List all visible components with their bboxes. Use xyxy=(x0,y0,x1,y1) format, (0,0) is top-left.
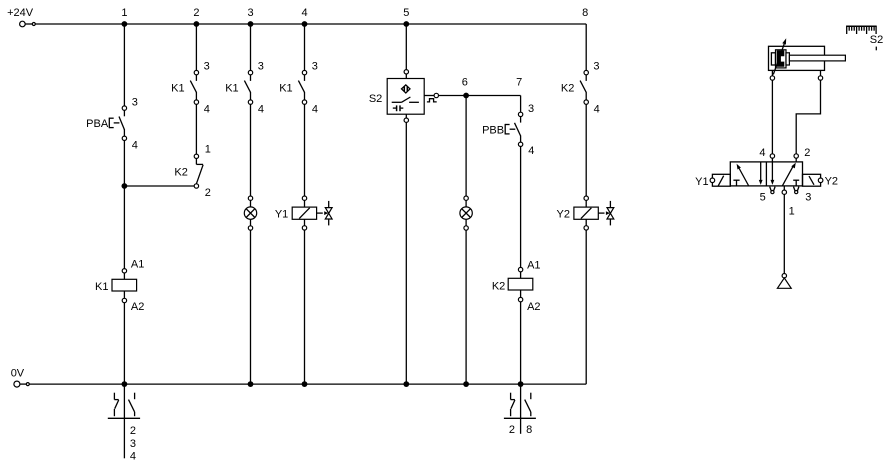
valve body divider xyxy=(765,162,767,186)
wire column 7 middle xyxy=(520,147,522,268)
svg-text:2: 2 xyxy=(130,425,136,437)
wire column 7 lower xyxy=(520,302,522,384)
step symbol at sensor output xyxy=(427,99,437,102)
wire column 8 upper xyxy=(585,24,587,70)
valve port 1 terminal xyxy=(782,186,795,218)
svg-text:4: 4 xyxy=(312,103,318,115)
node rail column 1 xyxy=(122,381,128,387)
valve left position: flow arrow 1-4 xyxy=(737,164,749,186)
wire column 1 upper xyxy=(123,24,125,106)
svg-text:3: 3 xyxy=(130,438,136,450)
valve port 5 exhaust xyxy=(760,187,775,204)
svg-text:A1: A1 xyxy=(527,260,540,272)
svg-text:4: 4 xyxy=(204,103,210,115)
relay coil K2 (A1-A2) xyxy=(492,260,541,313)
svg-text:8: 8 xyxy=(582,7,588,19)
contact K1 NO (column 3, terminals 3-4) xyxy=(225,61,264,116)
cylinder port A terminal xyxy=(770,76,774,80)
valve solenoid Y1 xyxy=(695,174,730,188)
svg-text:Y1: Y1 xyxy=(695,176,708,188)
node rail column 4 xyxy=(302,381,308,387)
valve port 4 terminal xyxy=(759,147,774,162)
svg-text:3: 3 xyxy=(528,103,534,115)
wire column 8 middle xyxy=(585,104,587,196)
wire column 7 upper xyxy=(520,96,522,113)
wire column 6 lower xyxy=(465,230,467,384)
valve port 3 exhaust xyxy=(794,187,812,204)
svg-text:4: 4 xyxy=(301,7,307,19)
svg-text:3: 3 xyxy=(204,61,210,73)
node rail column 5 xyxy=(403,381,409,387)
node rail column 6 xyxy=(463,381,469,387)
distance ruler xyxy=(846,26,877,34)
wire column 1 middle xyxy=(123,141,125,269)
svg-text:4: 4 xyxy=(528,145,534,157)
contact K2 NC (column 2, terminals 1-2) xyxy=(174,144,210,199)
svg-text:2: 2 xyxy=(205,187,211,199)
node column1-K2 junction xyxy=(122,183,128,189)
contact mirror K2 xyxy=(504,384,536,436)
wire column 4 upper xyxy=(304,24,306,70)
svg-text:K1: K1 xyxy=(95,281,108,293)
svg-text:K1: K1 xyxy=(279,83,292,95)
cylinder piston rod xyxy=(789,55,845,61)
svg-text:A1: A1 xyxy=(131,259,144,271)
svg-text:A2: A2 xyxy=(527,301,540,313)
terminal sensor output xyxy=(434,93,438,97)
valve right position: flow path 4-5 xyxy=(771,162,775,185)
svg-text:2: 2 xyxy=(509,424,515,436)
wire cylinder port B to valve port 2 xyxy=(796,80,820,154)
0V supply terminal xyxy=(14,381,29,387)
svg-text:S2: S2 xyxy=(870,34,883,46)
svg-text:2: 2 xyxy=(804,147,810,159)
wire cylinder port A to valve port 4 xyxy=(771,80,773,154)
svg-text:3: 3 xyxy=(247,7,253,19)
node 1 xyxy=(121,7,127,27)
svg-text:K2: K2 xyxy=(492,280,505,292)
svg-text:4: 4 xyxy=(258,103,264,115)
svg-text:+24V: +24V xyxy=(7,7,34,19)
compressed air supply xyxy=(777,274,791,289)
svg-text:S2: S2 xyxy=(369,93,382,105)
contact K2 NO (column 8, terminals 3-4) xyxy=(561,61,600,116)
wire column 4 middle xyxy=(304,104,306,196)
solenoid valve coil Y1 xyxy=(275,196,332,230)
valve left position: flow path 2-3 xyxy=(759,162,763,185)
contact K1 NO (column 4, terminals 3-4) xyxy=(279,61,318,116)
indicator lamp (column 3) xyxy=(244,196,256,230)
svg-text:Y2: Y2 xyxy=(825,175,838,187)
valve right position: blocked port T xyxy=(793,180,799,186)
svg-text:3: 3 xyxy=(132,97,138,109)
pushbutton PBA (NO, terminals 3-4) xyxy=(86,97,138,152)
svg-text:6: 6 xyxy=(462,77,468,89)
cylinder port A stub xyxy=(771,70,773,75)
node 5 xyxy=(403,7,409,27)
wire sensor output to node 6 xyxy=(424,95,434,97)
wire column 2 upper xyxy=(195,24,197,70)
valve solenoid Y2 xyxy=(803,174,839,187)
node 4 xyxy=(301,7,307,27)
valve left position: blocked port T xyxy=(733,180,739,186)
wire +24V top rail xyxy=(35,23,586,25)
cylinder port B stub xyxy=(820,70,822,75)
wire column 1 lower xyxy=(123,303,125,384)
svg-text:4: 4 xyxy=(759,147,765,159)
cylinder actuation arrow xyxy=(773,38,786,74)
wire column 3 middle xyxy=(250,104,252,196)
svg-text:Y2: Y2 xyxy=(557,208,570,220)
svg-text:4: 4 xyxy=(130,451,136,463)
svg-text:3: 3 xyxy=(593,61,599,73)
wire column 2 middle xyxy=(195,104,197,154)
svg-text:K2: K2 xyxy=(561,83,574,95)
svg-text:4: 4 xyxy=(594,103,600,115)
cylinder port B terminal xyxy=(818,76,822,80)
wire column 3 lower xyxy=(250,230,252,384)
relay coil K1 (A1-A2) xyxy=(95,259,144,314)
svg-text:PBB: PBB xyxy=(482,125,504,137)
valve port 2 terminal xyxy=(794,147,810,162)
svg-text:5: 5 xyxy=(403,7,409,19)
svg-text:K1: K1 xyxy=(225,83,238,95)
indicator lamp (column 6) xyxy=(460,196,472,230)
wire column 5 lower xyxy=(405,122,407,384)
svg-text:8: 8 xyxy=(526,424,532,436)
node rail column 3 xyxy=(248,381,254,387)
svg-text:5: 5 xyxy=(760,192,766,204)
node 2 xyxy=(193,7,199,27)
contact K1 NO (column 2, terminals 3-4) xyxy=(171,61,210,116)
wire 0V bottom rail xyxy=(29,383,586,385)
svg-text:0V: 0V xyxy=(11,367,25,379)
cylinder 1A body xyxy=(769,46,825,70)
cylinder rear cushion xyxy=(771,53,775,65)
wire node 6 to column 7 xyxy=(439,95,521,97)
cylinder piston magnet xyxy=(777,50,785,66)
wire column 6 xyxy=(465,96,467,197)
wire column 3 upper xyxy=(250,24,252,70)
solenoid valve coil Y2 xyxy=(557,196,614,230)
proximity sensor S2 (electrical) xyxy=(369,70,424,123)
svg-text:PBA: PBA xyxy=(86,118,109,130)
svg-text:3: 3 xyxy=(312,61,318,73)
svg-text:3: 3 xyxy=(258,61,264,73)
valve right position: flow arrow 1-2 xyxy=(782,163,796,186)
svg-text:1: 1 xyxy=(205,144,211,156)
node 3 xyxy=(247,7,253,27)
svg-text:K2: K2 xyxy=(174,167,187,179)
svg-text:Y1: Y1 xyxy=(275,208,288,220)
pushbutton PBB (NO, terminals 3-4) xyxy=(482,103,534,157)
svg-text:K1: K1 xyxy=(171,83,184,95)
svg-text:3: 3 xyxy=(805,192,811,204)
wire column 8 lower xyxy=(585,230,587,384)
svg-text:A2: A2 xyxy=(131,301,144,313)
sensor S2 position tick xyxy=(875,47,877,51)
svg-text:1: 1 xyxy=(789,206,795,218)
wire column 4 lower xyxy=(304,230,306,384)
cylinder rod plate xyxy=(786,53,789,65)
node rail column 7 xyxy=(518,381,524,387)
svg-text:2: 2 xyxy=(193,7,199,19)
wire K2 contact to node (horizontal) xyxy=(124,185,194,187)
contact mirror K1 xyxy=(108,384,140,462)
wire valve port 1 to supply xyxy=(783,194,785,273)
svg-text:4: 4 xyxy=(132,140,138,152)
wire column 5 upper xyxy=(405,24,407,70)
node 6 xyxy=(462,77,469,99)
+24V supply terminal xyxy=(20,21,36,27)
cylinder piston xyxy=(776,50,787,68)
valve 5/2 body xyxy=(730,162,802,186)
svg-text:7: 7 xyxy=(516,77,522,89)
svg-text:1: 1 xyxy=(121,7,127,19)
